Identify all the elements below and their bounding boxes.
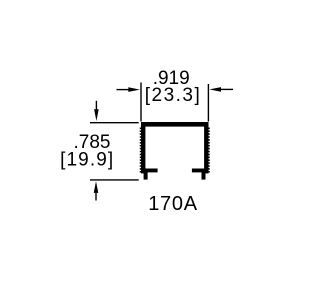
extrusion profile: left bottom flange arm [141,169,158,173]
extrusion profile 170A: top bar [141,122,209,127]
extrusion profile: left bottom lip [144,170,148,180]
svg-text:[19.9]: [19.9] [60,150,114,171]
dimension .919 left arrow [117,87,140,92]
extrusion profile: left wall knurl serration [140,128,142,173]
svg-text:170A: 170A [148,193,198,215]
extrusion profile: right wall [204,122,208,173]
dimension .785 bottom arrow (points up) [94,181,99,200]
dimension .785 bottom extension line [90,179,139,181]
dimension .919 right extension line [207,84,209,122]
dimension .919 left extension line [140,83,142,122]
svg-text:[23.3]: [23.3] [145,85,202,106]
extrusion profile: right wall knurl serration [208,128,210,173]
dimension .785 top extension line [90,122,139,124]
extrusion profile: left wall [141,122,145,173]
dimension .785 top arrow (points down) [94,101,99,121]
dimension .919 right arrow [209,87,233,92]
extrusion profile: right bottom flange arm [192,169,209,173]
extrusion profile: right bottom lip [202,170,206,180]
